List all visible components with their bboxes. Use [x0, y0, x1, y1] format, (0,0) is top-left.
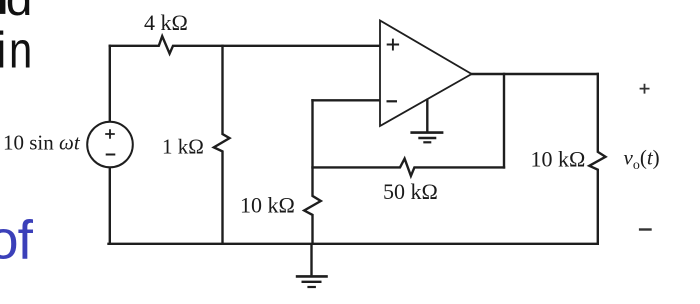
- svg-text:4 kΩ: 4 kΩ: [144, 10, 188, 35]
- svg-text:o: o: [0, 209, 19, 271]
- svg-text:i: i: [0, 22, 7, 79]
- svg-text:10 kΩ: 10 kΩ: [531, 147, 586, 172]
- svg-text:vo(t): vo(t): [624, 146, 660, 174]
- svg-text:10 sin ωt: 10 sin ωt: [3, 130, 81, 154]
- svg-text:n: n: [9, 22, 32, 79]
- svg-text:50 kΩ: 50 kΩ: [383, 179, 438, 204]
- svg-text:1 kΩ: 1 kΩ: [162, 135, 204, 159]
- svg-text:10 kΩ: 10 kΩ: [240, 193, 295, 218]
- svg-text:f: f: [18, 209, 34, 271]
